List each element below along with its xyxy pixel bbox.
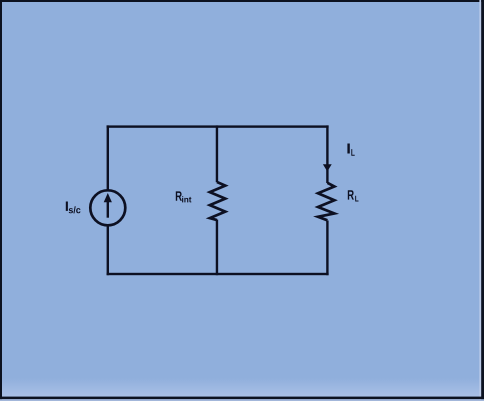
current source I_s/c (90, 190, 125, 225)
wire left upper (107, 125, 109, 190)
resistor R_L (318, 183, 334, 221)
wire middle upper (216, 125, 218, 182)
resistor R_int (210, 182, 226, 220)
label I_s/c (66, 202, 81, 214)
label I_L (347, 144, 354, 156)
label R_L (348, 190, 359, 201)
label R_int (176, 191, 192, 202)
wire middle lower (216, 220, 218, 276)
wire left lower (107, 225, 109, 275)
wire right lower (326, 221, 328, 276)
wire bottom (107, 273, 329, 275)
wire right upper (326, 125, 328, 183)
wire top (107, 125, 329, 127)
current arrow I_L (323, 164, 332, 171)
